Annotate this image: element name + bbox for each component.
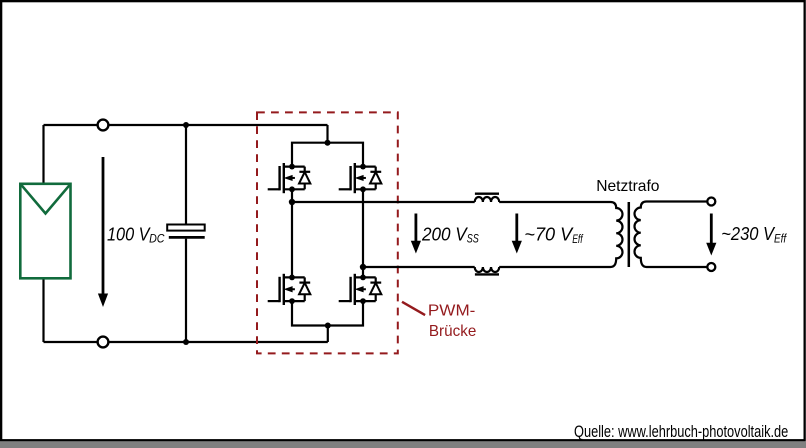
svg-text:Quelle: www.lehrbuch-photovolt: Quelle: www.lehrbuch-photovoltaik.de [574,423,788,441]
wire lower output rail [363,266,475,268]
voltage arrow 200 VSS [414,214,417,243]
svg-text:PWM-: PWM- [428,302,476,319]
wire bottom DC bus [44,341,328,343]
node junction bottom capacitor [183,339,189,345]
svg-text:DC: DC [149,234,165,246]
transistor Q3 [268,274,311,305]
wire bridge bottom rail [292,301,363,325]
inductor L2 bottom [475,267,500,272]
node junction top capacitor [183,122,189,128]
svg-text:Eff: Eff [774,233,788,245]
PWM pointer line [402,302,425,315]
wire bridge entry [326,125,328,143]
transistor Q4 [339,274,382,305]
bottom gray bar [0,442,806,448]
voltage arrow 100 VDC [102,157,105,295]
terminal node output bottom [707,263,715,271]
terminal node bottom-left [98,337,109,348]
transistor Q2 [339,163,382,193]
PWM bridge dashed box [257,112,398,353]
wire capacitor branch [185,125,187,342]
wire bridge top rail [292,143,363,167]
svg-text:SS: SS [467,234,479,246]
svg-text:100 V: 100 V [107,224,151,244]
transformer T1 core [628,202,631,267]
node B right output junction [360,264,366,270]
node junction bridge top [325,140,331,146]
svg-text:Netztrafo: Netztrafo [596,178,659,195]
node junction bridge bottom [325,323,331,329]
transistor Q1 [268,163,311,193]
capacitor C1 [167,225,205,238]
voltage arrow 70 VEff [515,214,518,243]
node A left output junction [289,199,295,205]
inductor L1 top [475,197,500,202]
terminal node output top [707,198,715,206]
svg-text:~230 V: ~230 V [721,224,776,244]
svg-text:Brücke: Brücke [429,323,476,340]
wire left leg [291,189,293,277]
terminal node top-left [98,120,109,131]
voltage arrow 230 VEff [710,214,713,245]
svg-text:200 V: 200 V [421,224,469,244]
wire upper output rail [292,201,475,203]
wire top DC bus [44,124,328,126]
transformer T1 secondary winding [635,202,647,268]
wire bridge bottom exit [327,326,329,343]
transformer T1 primary winding [611,202,623,267]
wire secondary bottom [647,266,708,268]
solar module PV1 [20,184,70,278]
svg-text:Eff: Eff [572,234,584,246]
wire secondary top [647,200,708,202]
wire PV left vertical [42,125,44,342]
svg-text:~70 V: ~70 V [524,224,574,244]
wire right leg [362,189,364,277]
